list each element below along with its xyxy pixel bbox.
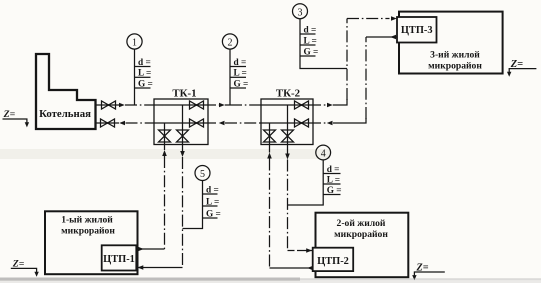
svg-text:2: 2 [228, 38, 233, 49]
wire: return main TK-1 to TK-2 (dash-dot) [208, 122, 219, 124]
svg-text:d =: d = [304, 25, 317, 35]
svg-text:d =: d = [327, 165, 340, 175]
wire: supply main through TK-2 (solid) [260, 104, 313, 106]
substation CTP-1 box [102, 245, 137, 270]
flow arrow down on TK-2 supply branch below box [285, 154, 290, 160]
flow arrow right on supply after boiler valve [119, 103, 125, 107]
wire: return main, boiler to valve (solid) [96, 122, 120, 124]
svg-text:ЦТП-3: ЦТП-3 [401, 25, 433, 36]
callout 1 tick L [135, 76, 151, 78]
svg-text:ТК-1: ТК-1 [172, 87, 196, 99]
callout 3 tick L [300, 44, 316, 46]
wire: supply main, boiler to valve (solid) [96, 104, 120, 106]
wire: TK-2 return branch drop (solid, inside box) [269, 123, 271, 145]
callout 4 tick G [323, 194, 340, 196]
district 2 block box [316, 213, 409, 278]
wire: supply branch TK-2 down to CTP-2 level (dash-dot) [287, 145, 289, 251]
wire: supply into CTP-2 (solid) [288, 250, 299, 252]
callout 1 tick G [135, 87, 151, 89]
callout 3 stem wire [300, 19, 347, 69]
wire: return branch TK-2 down to CTP-2 level (dash-dot) [269, 145, 271, 269]
valve on supply inside TK-2 [295, 101, 309, 109]
flow arrow right entering CTP-3 supply [391, 16, 397, 20]
flow arrow down on TK-1 supply branch below box [180, 151, 185, 157]
callout 5 tick d [203, 193, 218, 195]
svg-text:ТК-2: ТК-2 [276, 87, 300, 99]
wire: TK-2 supply branch drop (solid, inside box) [287, 105, 289, 145]
svg-text:Z=: Z= [3, 109, 16, 120]
wire: supply main arrow to TK-2 (solid then dash-dot) [225, 104, 230, 106]
flow arrow left leaving CTP-2 return [307, 266, 313, 270]
svg-text:микрорайон: микрорайон [428, 61, 482, 72]
svg-text:L =: L = [327, 175, 340, 185]
district 3 block box [399, 12, 503, 74]
wire: supply branch TK-1 down to CTP-1 level (dash-dot) [182, 145, 184, 268]
callout circle 5 [195, 166, 210, 181]
valve on return inside TK-2 [295, 119, 309, 127]
heat chamber TK-1 box [154, 99, 208, 145]
callout 2 stem wire [229, 49, 231, 105]
callout 5 stem wire [183, 181, 203, 229]
svg-text:L =: L = [138, 69, 151, 79]
node Z= upper right elevation mark [507, 59, 536, 77]
callout 2 tick G [230, 87, 246, 89]
flow arrow right on supply between TK-1 and TK-2 [219, 103, 225, 107]
valve on TK-1 return branch (vertical) [159, 130, 171, 142]
substation CTP-3 box [397, 17, 437, 43]
wire: supply main after TK-2 (dash-dot) [313, 104, 327, 106]
wire: supply top run to CTP-3 (dash-dot) [347, 18, 390, 20]
wire: return main, arrow to TK-1 (dash-dot) [126, 122, 155, 124]
valve on TK-2 return branch (vertical) [264, 130, 276, 142]
wire: return main to TK-2 (dash-dot) [225, 122, 260, 124]
node Z= lower left elevation mark [11, 259, 39, 277]
wire: supply into CTP-1 (solid) [136, 267, 182, 269]
wire: TK-1 return branch drop (solid, inside box) [164, 123, 166, 145]
valve on supply inside TK-1 [190, 101, 204, 109]
wire: return main through TK-1 (solid) [154, 122, 208, 124]
callout circle 2 [222, 34, 237, 49]
district 1 block box [45, 211, 138, 274]
substation CTP-2 box [313, 248, 354, 271]
flow arrow left entering CTP-1 supply [138, 265, 144, 269]
flow arrow up on TK-2 return branch below box [267, 153, 272, 159]
wire: return from CTP-2 to TK-2 branch (solid) [270, 267, 313, 269]
valve on return inside TK-1 [190, 119, 204, 127]
flow arrow left on return near boiler [119, 121, 125, 125]
flow arrow left on return between TK-1 and TK-2 [219, 121, 225, 125]
svg-text:G =: G = [138, 79, 153, 89]
wire: supply main through TK-1 (solid) [154, 104, 208, 106]
valve on TK-1 supply branch (vertical) [177, 130, 189, 142]
svg-text:4: 4 [321, 149, 326, 160]
flow arrow right entering CTP-2 supply [306, 248, 312, 252]
svg-text:d =: d = [234, 58, 247, 68]
wire: return main after TK-2 (dash-dot) [313, 122, 327, 124]
valve on TK-2 supply branch (vertical) [282, 130, 294, 142]
heat chamber TK-2 box [261, 99, 313, 145]
svg-text:3: 3 [298, 7, 303, 18]
node Z= lower right elevation mark [412, 262, 445, 280]
flow arrow right leaving CTP-1 return [138, 247, 144, 251]
flow arrow up on TK-1 return branch below box [162, 150, 167, 156]
wire: return riser corner from CTP-3 (solid + dash-dot up) [333, 118, 366, 123]
valve on supply at boiler outlet [102, 101, 116, 109]
svg-text:ЦТП-2: ЦТП-2 [317, 256, 349, 267]
wire: supply main TK-1 to TK-2 (dash-dot with junction at callout 2) [208, 104, 219, 106]
callout 4 stem wire [288, 160, 324, 205]
svg-text:G =: G = [206, 209, 221, 219]
svg-text:2-ой жилой: 2-ой жилой [337, 218, 386, 229]
wire: return branch TK-1 down to CTP-1 level (dash-dot) [164, 145, 166, 250]
svg-text:ЦТП-1: ЦТП-1 [103, 254, 135, 265]
svg-text:G =: G = [327, 186, 342, 196]
wire: return main through TK-2 (solid) [260, 122, 313, 124]
callout 1 stem wire [134, 49, 136, 105]
svg-text:d =: d = [138, 58, 151, 68]
valve on return at boiler outlet [101, 119, 115, 127]
boiler house outline [36, 54, 96, 129]
wire: return from CTP-1 to TK-1 branch (solid with corner) [136, 248, 164, 250]
svg-text:микрорайон: микрорайон [61, 226, 115, 237]
wire: return top run from CTP-3 (solid) [366, 36, 397, 38]
flow arrow right on supply after TK-2 [327, 103, 333, 107]
wire: TK-1 supply branch drop (solid, inside box) [182, 105, 184, 145]
callout 5 tick G [203, 217, 218, 219]
flow arrow left leaving CTP-3 return [390, 35, 396, 39]
callout 4 tick L [323, 183, 340, 185]
svg-text:L =: L = [304, 36, 317, 46]
callout 1 tick d [135, 66, 151, 68]
callout circle 3 [293, 4, 308, 19]
svg-text:5: 5 [200, 169, 205, 180]
callout 3 tick d [300, 33, 316, 35]
svg-text:1-ый жилой: 1-ый жилой [61, 215, 113, 226]
callout 3 tick G [300, 55, 316, 57]
svg-text:L =: L = [234, 69, 247, 79]
flow arrow left on return after TK-2 [327, 121, 333, 125]
callout circle 4 [316, 145, 331, 160]
wire: supply main, arrow to TK-1 (dash-dot) [125, 104, 154, 106]
svg-text:G =: G = [304, 47, 319, 57]
svg-text:d =: d = [206, 185, 219, 195]
callout 5 tick L [203, 205, 218, 207]
svg-text:микрорайон: микрорайон [334, 229, 388, 240]
svg-text:Котельная: Котельная [39, 108, 91, 120]
svg-text:G =: G = [234, 79, 249, 89]
svg-text:L =: L = [206, 197, 219, 207]
scan smudge bottom edge (decorative) [0, 278, 541, 283]
callout 2 tick d [230, 66, 246, 68]
svg-text:1: 1 [132, 38, 137, 49]
svg-text:3-ий жилой: 3-ий жилой [430, 50, 480, 61]
callout 2 tick L [230, 76, 246, 78]
node Z= left (boiler elevation mark) [3, 109, 30, 127]
callout circle 1 [127, 34, 142, 49]
callout 4 tick d [323, 173, 340, 175]
wire: supply main riser corner to CTP-3 (solid then dash-dot up) [333, 99, 347, 105]
